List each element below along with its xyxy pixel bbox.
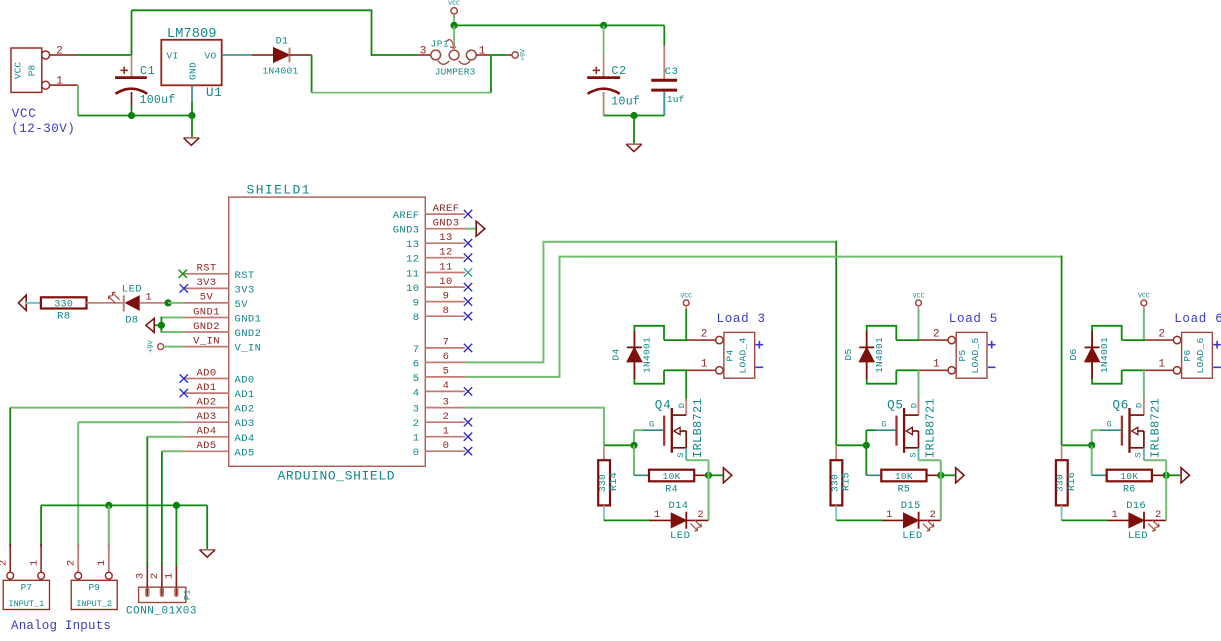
junction under U1 GND	[188, 112, 195, 119]
wire loop diode D5	[867, 326, 897, 349]
wire D14 to junction	[708, 475, 710, 520]
wire AD2 to P7	[10, 407, 184, 409]
pin 13 of SHIELD1	[425, 242, 465, 244]
pin AREF of SHIELD1	[425, 213, 465, 215]
svg-text:LOAD_4: LOAD_4	[738, 337, 749, 373]
svg-text:D: D	[677, 403, 687, 408]
svg-text:GND3: GND3	[393, 225, 420, 237]
svg-text:100uf: 100uf	[140, 94, 176, 107]
wire to P4 pin 1	[664, 369, 688, 371]
wire Q4 source	[685, 448, 687, 460]
power symbol VCC at P4	[683, 300, 689, 306]
svg-text:1: 1	[1158, 359, 1165, 371]
pin 9 of SHIELD1	[425, 301, 465, 303]
svg-text:P4: P4	[725, 349, 736, 361]
svg-text:GND3: GND3	[433, 218, 460, 230]
pin 8 of SHIELD1	[425, 315, 465, 317]
svg-text:S: S	[908, 452, 918, 457]
svg-text:3: 3	[413, 404, 420, 416]
svg-text:1: 1	[145, 292, 151, 304]
pin 5V of SHIELD1	[184, 302, 229, 304]
LED D15	[882, 519, 903, 521]
wire D15 to junction	[940, 475, 942, 520]
plus minus marks	[756, 341, 764, 367]
svg-text:10: 10	[406, 283, 419, 295]
svg-text:P9: P9	[88, 582, 100, 593]
svg-text:D15: D15	[901, 500, 921, 512]
svg-text:LED: LED	[670, 530, 690, 542]
svg-text:Load 6: Load 6	[1174, 312, 1221, 326]
wire to P5 pin 2	[896, 339, 920, 341]
svg-text:R15: R15	[842, 472, 853, 491]
svg-text:Q6: Q6	[1113, 399, 1130, 413]
power symbol VCC above JP1	[451, 8, 457, 14]
U1 GND pin stub	[191, 85, 193, 101]
svg-text:AREF: AREF	[393, 210, 420, 222]
svg-text:2: 2	[1155, 509, 1161, 521]
junction above C2	[600, 22, 607, 29]
svg-text:13: 13	[406, 239, 419, 251]
no-connect pin 10	[464, 283, 472, 291]
node +9V at V_IN	[158, 344, 164, 350]
connector P1 CONN_01X03	[139, 587, 186, 602]
ground symbol below C2 C3	[633, 116, 635, 145]
svg-text:+9V: +9V	[520, 49, 527, 61]
connector P7 INPUT_1	[3, 580, 49, 609]
svg-text:D: D	[909, 403, 919, 408]
IC SHIELD1 ARDUINO_SHIELD	[229, 197, 426, 466]
no-connect pin 8	[464, 312, 472, 320]
svg-text:SHIELD1: SHIELD1	[247, 183, 311, 198]
svg-text:D16: D16	[1126, 500, 1146, 512]
svg-text:R4: R4	[665, 485, 678, 496]
svg-text:AD4: AD4	[196, 426, 216, 438]
svg-text:C3: C3	[665, 66, 679, 78]
svg-text:330: 330	[829, 474, 840, 492]
svg-text:VCC: VCC	[12, 107, 37, 121]
svg-text:R6: R6	[1123, 485, 1136, 496]
svg-text:3V3: 3V3	[196, 277, 216, 289]
pin 2 of P8	[50, 54, 78, 56]
svg-text:1: 1	[56, 75, 63, 87]
svg-text:VO: VO	[204, 50, 216, 61]
junction under C1	[128, 112, 135, 119]
transistor Q4 IRLB8721	[685, 399, 687, 415]
svg-text:P8: P8	[27, 65, 38, 77]
wire D1 down and right to JP1 pin1	[311, 55, 313, 93]
capacitor C3	[663, 25, 665, 46]
wires GND1 GND2 to ground arrow	[161, 317, 183, 319]
no-connect pin 0	[464, 447, 472, 455]
junction at P9.1	[105, 502, 112, 509]
pin 1 of P9	[108, 544, 110, 572]
pin 4 of SHIELD1	[425, 390, 465, 392]
svg-text:JUMPER3: JUMPER3	[435, 67, 476, 78]
wire AD4 down	[146, 437, 148, 567]
diode D6 1N4001	[1091, 331, 1093, 347]
svg-text:2: 2	[56, 45, 63, 57]
junction on 5V wire	[165, 299, 172, 306]
svg-text:IRLB8721: IRLB8721	[691, 398, 705, 458]
svg-text:2: 2	[701, 328, 708, 340]
svg-text:INPUT_2: INPUT_2	[76, 599, 112, 609]
svg-text:AD4: AD4	[235, 433, 255, 445]
no-connect pin 9	[464, 297, 472, 305]
svg-text:AD3: AD3	[196, 411, 216, 423]
pin GND2 of SHIELD1	[184, 331, 229, 333]
pin V_IN of SHIELD1	[184, 346, 229, 348]
wire top rail C1 to JP1	[132, 10, 418, 55]
svg-text:1: 1	[886, 509, 892, 521]
svg-text:3V3: 3V3	[235, 284, 255, 296]
wire AD5 to P1.2	[162, 450, 184, 452]
svg-text:3: 3	[420, 45, 427, 57]
svg-text:ARDUINO_SHIELD: ARDUINO_SHIELD	[278, 469, 396, 484]
pin GND3 of SHIELD1	[425, 228, 465, 230]
svg-text:1N4001: 1N4001	[874, 337, 885, 373]
wire to P4 pin 2	[664, 339, 688, 341]
svg-text:330: 330	[54, 299, 73, 310]
svg-text:GND2: GND2	[235, 328, 262, 340]
resistor R15 330	[835, 445, 837, 460]
wire pin 6 to Q5 gate	[465, 242, 836, 363]
svg-text:10K: 10K	[1120, 471, 1138, 482]
pin 5 of SHIELD1	[425, 376, 465, 378]
pin 6 of SHIELD1	[425, 361, 465, 363]
svg-text:GND1: GND1	[235, 314, 262, 326]
diode D5 1N4001	[866, 331, 868, 347]
wire bus to ground	[206, 505, 208, 549]
svg-text:4: 4	[413, 387, 420, 399]
wire loop diode D6	[1092, 326, 1122, 349]
svg-text:D5: D5	[843, 348, 854, 360]
svg-text:VCC: VCC	[680, 293, 692, 300]
svg-text:P6: P6	[1182, 349, 1193, 361]
hierarchical arrow at R8	[18, 295, 26, 310]
hierarchical arrow right of R6	[1181, 468, 1189, 483]
svg-text:R14: R14	[609, 472, 620, 491]
svg-text:Load 3: Load 3	[717, 312, 766, 326]
LED D14	[650, 519, 671, 521]
svg-text:12: 12	[406, 254, 419, 266]
svg-text:1: 1	[413, 433, 420, 445]
svg-text:330: 330	[597, 474, 608, 492]
connector P5 LOAD_5	[948, 336, 955, 343]
no-connect pin 13	[464, 239, 472, 247]
resistor R16 330	[1061, 445, 1063, 460]
wire VCC to JP1 pin2	[453, 25, 455, 46]
svg-text:13: 13	[439, 232, 452, 244]
pin 1 of P1	[175, 566, 177, 596]
svg-text:AD5: AD5	[196, 440, 216, 452]
pin 0 of SHIELD1	[425, 450, 465, 452]
svg-text:AD5: AD5	[235, 447, 255, 459]
gate junction	[1091, 430, 1093, 445]
wire AD2 down	[9, 408, 11, 547]
junction right of R4	[705, 472, 712, 479]
pin 1 of P8	[50, 84, 78, 86]
wire gate of Q6	[1092, 429, 1102, 431]
svg-text:1N4001: 1N4001	[642, 337, 653, 373]
resistor R6 10K	[1092, 474, 1107, 476]
svg-text:AD1: AD1	[196, 382, 216, 394]
ground arrow at GND1 GND2	[146, 318, 154, 332]
connector P9 INPUT_2	[71, 580, 117, 609]
svg-text:D4: D4	[611, 348, 622, 360]
pin 3 of SHIELD1	[425, 407, 465, 409]
wire pin 3 to Q4 gate	[465, 408, 604, 446]
plus minus marks	[1213, 341, 1221, 367]
connector P8	[11, 48, 42, 92]
svg-text:+9V: +9V	[148, 340, 156, 353]
svg-text:1N4001: 1N4001	[263, 66, 299, 77]
wire to P5 pin 1	[896, 369, 920, 371]
pin GND1 of SHIELD1	[184, 317, 229, 319]
svg-text:LOAD_5: LOAD_5	[970, 337, 981, 373]
wire AD4 to P1.3	[147, 436, 184, 438]
svg-text:LED: LED	[902, 530, 922, 542]
svg-text:VCC: VCC	[13, 62, 24, 79]
wire P8.2 to VI	[78, 54, 132, 56]
svg-text:5V: 5V	[235, 299, 249, 311]
wire AD3 to P9	[78, 421, 184, 423]
wire bus to P7.1	[40, 505, 42, 547]
no-connect pin 12	[464, 254, 472, 262]
svg-text:LM7809: LM7809	[167, 27, 217, 42]
svg-text:2: 2	[149, 573, 161, 579]
svg-text:7: 7	[413, 344, 420, 356]
svg-text:0: 0	[443, 440, 450, 452]
svg-text:LOAD_6: LOAD_6	[1195, 337, 1206, 373]
pin 2 of SHIELD1	[425, 421, 465, 423]
pin 1 of SHIELD1	[425, 436, 465, 438]
wire to +9V connector	[490, 54, 507, 56]
wire P6.1 to Q6 drain	[1143, 370, 1145, 401]
wire VCC rail to C2 C3	[454, 24, 664, 26]
no-connect AD1	[180, 389, 188, 397]
junction right of R5	[937, 472, 944, 479]
LED D16	[1108, 519, 1129, 521]
svg-text:11: 11	[439, 261, 452, 273]
svg-text:0: 0	[413, 447, 420, 459]
svg-text:1: 1	[933, 359, 940, 371]
svg-text:RST: RST	[196, 263, 216, 275]
no-connect RST	[179, 270, 187, 278]
svg-text:2: 2	[66, 560, 78, 566]
svg-text:1: 1	[443, 426, 450, 438]
svg-text:AD1: AD1	[235, 389, 255, 401]
jumper JP1 JUMPER3	[417, 54, 430, 56]
pin 12 of SHIELD1	[425, 257, 465, 259]
svg-text:3: 3	[443, 396, 450, 408]
svg-text:VCC: VCC	[1138, 293, 1150, 300]
svg-text:LED: LED	[122, 284, 142, 296]
svg-text:6: 6	[413, 358, 420, 370]
connector P4 LOAD_4	[716, 336, 723, 343]
svg-text:D14: D14	[669, 500, 689, 512]
svg-text:VCC: VCC	[913, 293, 925, 300]
svg-text:IRLB8721: IRLB8721	[1149, 398, 1163, 458]
hierarchical arrow right of R5	[956, 468, 964, 483]
wire pin 5 to Q6 gate	[465, 257, 1062, 377]
pin 3 of P1	[146, 566, 148, 596]
pin AD4 of SHIELD1	[184, 436, 229, 438]
gate junction	[865, 430, 867, 445]
svg-text:Q5: Q5	[887, 399, 904, 413]
wire R16 to D16	[1062, 519, 1109, 521]
no-connect AD0	[180, 374, 188, 382]
connector P6 LOAD_6	[1173, 336, 1180, 343]
svg-text:12: 12	[439, 247, 452, 259]
svg-text:1: 1	[479, 45, 486, 57]
capacitor C1	[131, 10, 133, 55]
svg-text:AD3: AD3	[235, 418, 255, 430]
svg-text:INPUT_1: INPUT_1	[8, 599, 44, 609]
no-connect pin 4	[464, 387, 472, 395]
wire to P6 pin 2	[1122, 339, 1146, 341]
LED D8	[123, 295, 125, 311]
wire P4.1 to Q4 drain	[685, 370, 687, 401]
svg-text:1: 1	[96, 560, 108, 566]
svg-text:AD2: AD2	[196, 396, 216, 408]
svg-text:2: 2	[413, 418, 420, 430]
svg-text:1: 1	[701, 359, 708, 371]
junction below C2	[630, 112, 637, 119]
svg-text:G: G	[649, 420, 654, 430]
diode D1 1N4001	[274, 48, 290, 63]
svg-text:D1: D1	[276, 37, 289, 48]
svg-text:10uf: 10uf	[611, 96, 640, 109]
svg-text:P5: P5	[957, 349, 968, 361]
transistor Q6 IRLB8721	[1143, 399, 1145, 415]
svg-text:1: 1	[163, 573, 175, 579]
svg-text:2: 2	[697, 509, 703, 521]
wire Q5 source	[918, 448, 920, 460]
svg-text:S: S	[676, 452, 686, 457]
svg-text:AD2: AD2	[235, 404, 255, 416]
no-connect pin 2	[464, 418, 472, 426]
capacitor C2	[603, 25, 605, 55]
pin AD3 of SHIELD1	[184, 421, 229, 423]
pin 1 of P7	[40, 544, 42, 572]
pin AD5 of SHIELD1	[184, 450, 229, 452]
svg-text:GND2: GND2	[193, 321, 220, 333]
svg-text:CONN_01X03: CONN_01X03	[126, 606, 197, 618]
svg-text:5: 5	[443, 366, 450, 378]
svg-text:VCC: VCC	[448, 0, 460, 7]
no-connect pin 7	[464, 344, 472, 352]
svg-text:1uf: 1uf	[667, 94, 685, 105]
svg-text:D6: D6	[1068, 348, 1079, 360]
transistor Q5 IRLB8721	[918, 399, 920, 415]
svg-text:G: G	[1107, 420, 1112, 430]
wire to P6 pin 1	[1122, 369, 1146, 371]
pin AD1 of SHIELD1	[184, 392, 229, 394]
svg-text:1N4001: 1N4001	[1099, 337, 1110, 373]
wire C2 C3 bottom	[604, 115, 665, 117]
pin AD0 of SHIELD1	[184, 378, 229, 380]
svg-text:7: 7	[443, 337, 450, 349]
resistor R8 330	[41, 297, 87, 308]
svg-text:JP1: JP1	[431, 39, 450, 50]
junction at P1.1	[173, 502, 180, 509]
svg-text:C1: C1	[140, 65, 155, 78]
svg-text:V_IN: V_IN	[235, 343, 262, 355]
resistor R5 10K	[866, 474, 881, 476]
svg-text:11: 11	[406, 269, 419, 281]
wire AD5 down	[161, 451, 163, 567]
resistor R4 10K	[634, 474, 649, 476]
svg-text:10K: 10K	[663, 471, 681, 482]
svg-text:AD0: AD0	[235, 375, 255, 387]
node +9V	[507, 54, 512, 56]
svg-text:(12-30V): (12-30V)	[11, 122, 75, 136]
resistor R14 330	[603, 445, 605, 460]
ground symbol at bus	[200, 549, 216, 551]
svg-text:D: D	[1135, 403, 1145, 408]
svg-text:U1: U1	[206, 86, 223, 100]
svg-text:RST: RST	[235, 270, 255, 282]
svg-text:5: 5	[413, 373, 420, 385]
svg-text:8: 8	[413, 312, 420, 324]
wire P8.1 down to ground rail	[77, 85, 79, 115]
svg-text:AD0: AD0	[196, 367, 216, 379]
svg-text:10: 10	[439, 276, 452, 288]
ground bus wire	[41, 504, 207, 506]
pin 2 of P1	[161, 566, 163, 596]
svg-text:D8: D8	[125, 314, 138, 326]
wire Q6 source	[1143, 448, 1145, 460]
ground symbol under U1	[191, 116, 193, 139]
pin 3V3 of SHIELD1	[184, 287, 229, 289]
svg-text:9: 9	[443, 290, 450, 302]
svg-text:2: 2	[1158, 328, 1165, 340]
svg-text:Analog Inputs: Analog Inputs	[11, 619, 111, 633]
wire gate of Q4	[634, 429, 644, 431]
svg-text:6: 6	[443, 351, 450, 363]
svg-text:1: 1	[29, 560, 41, 566]
svg-text:4: 4	[443, 380, 450, 392]
no-connect 3V3	[180, 284, 188, 292]
wire R14 to D14	[604, 519, 651, 521]
svg-text:S: S	[1134, 452, 1144, 457]
pin 2 of P7	[9, 544, 11, 572]
svg-text:AREF: AREF	[433, 203, 460, 215]
junction right of R6	[1163, 472, 1170, 479]
no-connect pin 11	[464, 268, 472, 276]
wire AD3 down	[77, 422, 79, 547]
svg-text:330: 330	[1055, 474, 1066, 492]
svg-text:GND: GND	[188, 62, 199, 80]
svg-text:P7: P7	[21, 582, 32, 593]
svg-text:2: 2	[0, 560, 10, 566]
pin 7 of SHIELD1	[425, 347, 465, 349]
svg-text:1: 1	[654, 509, 660, 521]
pin AD2 of SHIELD1	[184, 407, 229, 409]
no-connect pin 1	[464, 433, 472, 441]
svg-text:5V: 5V	[200, 292, 214, 304]
diode D4 1N4001	[633, 331, 635, 347]
svg-text:1: 1	[1112, 509, 1118, 521]
svg-text:R16: R16	[1067, 472, 1078, 491]
svg-text:3: 3	[134, 573, 146, 579]
hierarchical arrow right of R4	[723, 468, 731, 483]
wire VO to D1	[222, 54, 252, 56]
svg-text:Load 5: Load 5	[949, 312, 998, 326]
wire loop diode D4	[634, 326, 664, 349]
svg-text:LED: LED	[1128, 530, 1148, 542]
svg-text:2: 2	[443, 411, 450, 423]
